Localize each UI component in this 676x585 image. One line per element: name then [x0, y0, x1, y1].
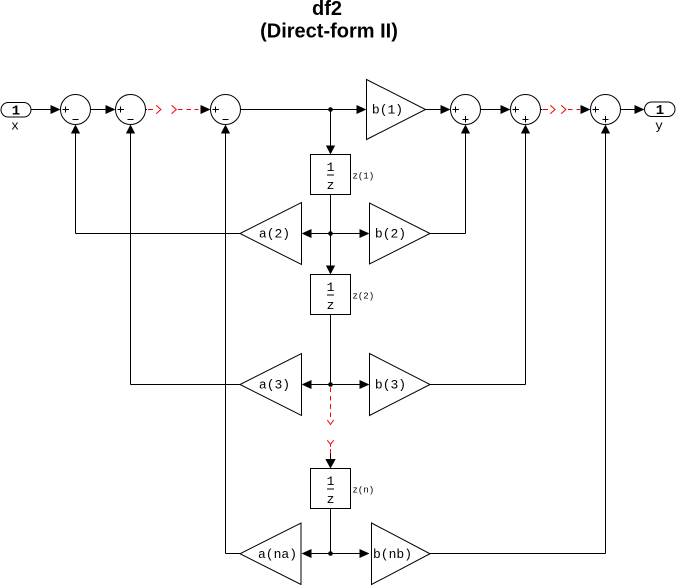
wire input to sum S1 [31, 105, 61, 114]
svg-text:1: 1 [12, 104, 20, 120]
junction node on main wire [328, 107, 333, 112]
continuation dashed wire from S2 (red) [146, 105, 161, 113]
wire a(3) output up to S2 [126, 125, 240, 385]
svg-text:df2: df2 [312, 0, 342, 20]
svg-text:b(2): b(2) [375, 227, 406, 242]
wire b(2) output up to S4 [430, 125, 470, 234]
svg-text:z: z [327, 178, 335, 193]
svg-text:x: x [11, 119, 19, 134]
wire b(nb) output up to S6 [430, 125, 610, 554]
wire z(2) down to junction 3 [330, 315, 332, 385]
svg-text:1: 1 [327, 280, 335, 295]
sum block S3 [211, 95, 241, 125]
wire a(na) output up to S3 [221, 125, 240, 554]
svg-text:b(3): b(3) [375, 378, 406, 393]
wire b(1) to S4 [426, 105, 451, 114]
wire S3 to gain b(1) [241, 105, 367, 114]
wire junction down to delay z(1) [326, 110, 335, 155]
sum block S1 [61, 95, 91, 125]
svg-text:a(2): a(2) [259, 227, 290, 242]
svg-text:z: z [327, 298, 335, 313]
delay block z(n) [311, 469, 375, 509]
sum block S2 [116, 95, 146, 125]
wire S4 to S5 [481, 105, 511, 114]
wire junction 2 down to delay z(2) [326, 234, 335, 275]
sum block S6 [591, 95, 621, 125]
wire a(2) output up to S1 [71, 125, 240, 234]
svg-text:z(2): z(2) [353, 292, 375, 302]
title [260, 0, 398, 43]
junction node 2 [328, 231, 333, 236]
input port x [1, 103, 31, 134]
svg-text:b(1): b(1) [372, 103, 403, 118]
wire junction 4 to gain a(na) [302, 549, 331, 558]
gain block b(1) [367, 80, 426, 140]
wire S6 to output port [621, 105, 645, 114]
wire junction 4 to gain b(nb) [331, 549, 370, 558]
svg-text:z(1): z(1) [353, 172, 375, 182]
svg-text:1: 1 [656, 103, 664, 119]
output port y [645, 102, 676, 134]
svg-text:a(3): a(3) [259, 378, 290, 393]
wire z(1) down to junction 2 [330, 195, 332, 234]
sum block S4 [451, 95, 481, 125]
gain block a(na) [240, 523, 301, 585]
gain block b(3) [370, 354, 431, 416]
wire junction 2 to gain b(2) [331, 229, 370, 238]
wire z(n) down to junction 4 [330, 509, 332, 554]
continuation dashed wire into S3 (red) [172, 105, 211, 114]
continuation dashed wire into S6 (red) [561, 105, 590, 114]
svg-text:(Direct-form II): (Direct-form II) [260, 21, 398, 43]
gain block a(3) [240, 354, 302, 416]
gain block a(2) [240, 203, 302, 265]
svg-text:a(na): a(na) [258, 547, 297, 562]
continuation dashed wire into delay z(n) (red) [325, 440, 335, 468]
svg-text:1: 1 [327, 474, 335, 489]
wire b(3) output up to S5 [430, 125, 530, 385]
svg-text:z: z [327, 492, 335, 507]
svg-text:b(nb): b(nb) [373, 547, 412, 562]
delay block z(1) [311, 155, 375, 195]
wire junction 3 to gain a(3) [302, 380, 331, 389]
wire S1 to S2 [91, 105, 116, 114]
svg-text:1: 1 [327, 160, 335, 175]
wire junction 2 to gain a(2) [302, 229, 331, 238]
gain block b(nb) [372, 523, 431, 585]
delay block z(2) [311, 275, 375, 315]
sum block S5 [511, 95, 541, 125]
continuation dashed wire from S5 (red) [541, 105, 556, 113]
svg-text:y: y [655, 119, 663, 134]
junction node 3 [328, 382, 333, 387]
gain block b(2) [370, 203, 431, 264]
continuation dashed wire below junction 3 (red) [327, 388, 333, 425]
junction node 4 [328, 551, 333, 556]
svg-text:z(n): z(n) [353, 486, 375, 496]
wire junction 3 to gain b(3) [331, 380, 370, 389]
